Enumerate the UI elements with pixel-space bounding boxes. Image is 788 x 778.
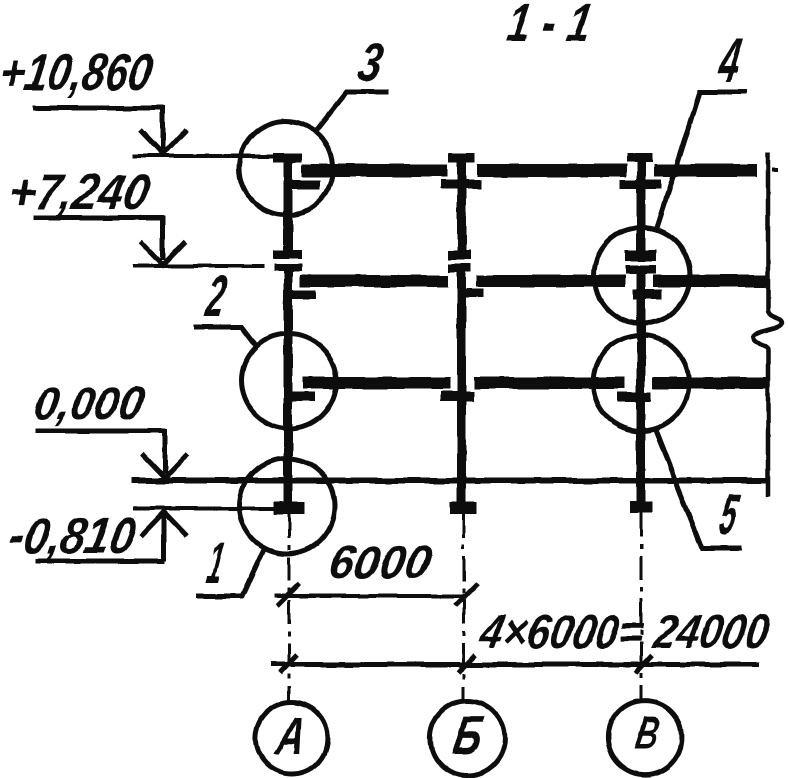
elevation mark +10,860 shelf line <box>33 106 164 111</box>
floor2 beam span A-B <box>300 275 448 287</box>
column B splice lower flange <box>448 264 471 272</box>
dimension line 6000 <box>274 594 466 598</box>
elevation mark -0,810 riser <box>162 515 167 561</box>
elevation mark 0,000 riser <box>163 429 168 474</box>
axis letter B <box>449 704 488 766</box>
roof corbel at column V <box>620 180 661 189</box>
axis bubble B <box>430 701 505 776</box>
floor1 corbel at column B <box>441 391 474 401</box>
elevation mark 0,000 shelf line <box>35 429 166 434</box>
column A lower shaft <box>284 264 293 504</box>
column B splice upper flange <box>448 250 471 260</box>
svg-text:0,000: 0,000 <box>30 377 148 429</box>
column A splice upper flange <box>273 250 301 259</box>
roof beam right of V <box>654 164 757 177</box>
column V cap flange <box>627 153 653 162</box>
column V upper shaft <box>637 162 646 261</box>
floor1 beam span A-B <box>303 377 450 389</box>
elevation mark -0,810 shelf line <box>35 559 165 564</box>
column V splice lower flange <box>625 265 656 274</box>
leader 3 <box>315 92 389 131</box>
elevation mark +10,860 text <box>0 44 157 102</box>
svg-text:В: В <box>632 707 663 760</box>
leader 1 <box>196 549 264 596</box>
svg-text:4: 4 <box>712 24 746 95</box>
overall dim tick at B <box>458 655 475 673</box>
callout circle 2 <box>242 334 337 429</box>
floor2 beam right of V <box>653 275 766 287</box>
section title 1-1 <box>503 0 597 53</box>
overall dim tick at A <box>280 655 297 673</box>
level line +7,240 <box>133 264 264 268</box>
floor2 corbel at column V <box>633 289 662 299</box>
level line +10,860 <box>133 154 276 158</box>
svg-text:+7,240: +7,240 <box>5 163 154 220</box>
svg-text:5: 5 <box>715 483 744 547</box>
svg-text:А: А <box>270 707 310 766</box>
floor1 corbel at column V <box>617 392 651 402</box>
axis line A (dash-dot) <box>288 514 291 700</box>
axis line B (dash-dot) <box>462 514 465 699</box>
column A cap flange <box>273 153 302 162</box>
column V base flange <box>630 502 652 513</box>
elevation mark -0,810 text <box>5 506 141 564</box>
svg-text:-0,810: -0,810 <box>5 506 141 564</box>
svg-text:1 - 1: 1 - 1 <box>503 0 597 53</box>
overall dim tick at V <box>635 655 652 673</box>
overall dimension line <box>271 662 759 667</box>
elevation mark -0,810 arrow <box>141 512 187 536</box>
roof beam span A-B <box>302 164 448 177</box>
roof corbel at column B <box>441 180 481 189</box>
axis bubble V <box>608 701 682 775</box>
elevation mark +7,240 shelf line <box>33 216 164 221</box>
callout circle 4 <box>594 228 690 324</box>
roof corbel at column A <box>291 180 320 189</box>
level line -0,810 <box>133 507 273 511</box>
axis line V (dash-dot) <box>640 513 643 699</box>
column V splice upper flange <box>625 250 656 261</box>
column A splice lower flange <box>274 264 302 272</box>
elevation mark +7,240 riser <box>161 216 166 260</box>
dimension tick at B <box>455 584 477 606</box>
floor2 corbel at column A <box>288 290 315 299</box>
callout circle 3 <box>239 121 333 215</box>
svg-text:+10,860: +10,860 <box>0 44 157 102</box>
elevation mark 0,000 text <box>30 377 148 429</box>
ground line 0,000 <box>131 478 766 484</box>
elevation mark 0,000 arrow <box>142 454 188 478</box>
tick at roof beam right end <box>772 168 779 172</box>
label 1 <box>203 531 229 596</box>
floor1 beam right of V <box>653 377 766 389</box>
roof beam span B-V <box>477 164 627 177</box>
column V lower shaft <box>637 265 646 505</box>
leader 2 <box>194 327 258 348</box>
column A base flange <box>273 502 305 514</box>
floor2 corbel at column B <box>461 289 484 298</box>
leader 5 <box>655 429 741 548</box>
label 3 <box>354 31 388 93</box>
column B lower shaft <box>457 264 466 504</box>
callout circle 5 <box>593 335 689 431</box>
svg-text:3: 3 <box>354 31 388 93</box>
overall dimension text <box>475 605 773 659</box>
floor1 beam span B-V <box>474 377 625 389</box>
column B upper shaft <box>457 162 466 260</box>
leader 4 <box>656 92 747 231</box>
svg-text:2: 2 <box>201 264 231 329</box>
label 2 <box>201 264 231 329</box>
svg-text:6000: 6000 <box>325 536 435 588</box>
break line right edge <box>753 152 782 497</box>
svg-text:1: 1 <box>203 531 229 596</box>
label 4 <box>712 24 746 95</box>
elevation mark +7,240 arrow <box>140 241 186 265</box>
elevation mark +10,860 riser <box>161 106 166 150</box>
floor2 beam span B-V <box>476 275 625 287</box>
elevation mark +10,860 arrow <box>140 130 186 154</box>
floor1 corbel at column A <box>285 392 315 401</box>
axis bubble A <box>255 702 327 774</box>
svg-text:4×6000= 24000: 4×6000= 24000 <box>475 605 773 659</box>
elevation mark +7,240 text <box>5 163 154 220</box>
label 5 <box>715 483 744 547</box>
axis letter V <box>632 707 663 760</box>
column A upper shaft <box>284 162 293 259</box>
svg-text:Б: Б <box>449 704 488 766</box>
callout circle 1 <box>240 459 335 554</box>
column B cap flange <box>449 153 475 162</box>
dimension text 6000 <box>325 536 435 588</box>
dimension tick at A <box>277 584 299 606</box>
axis letter A <box>270 707 310 766</box>
column B base flange <box>450 502 477 514</box>
